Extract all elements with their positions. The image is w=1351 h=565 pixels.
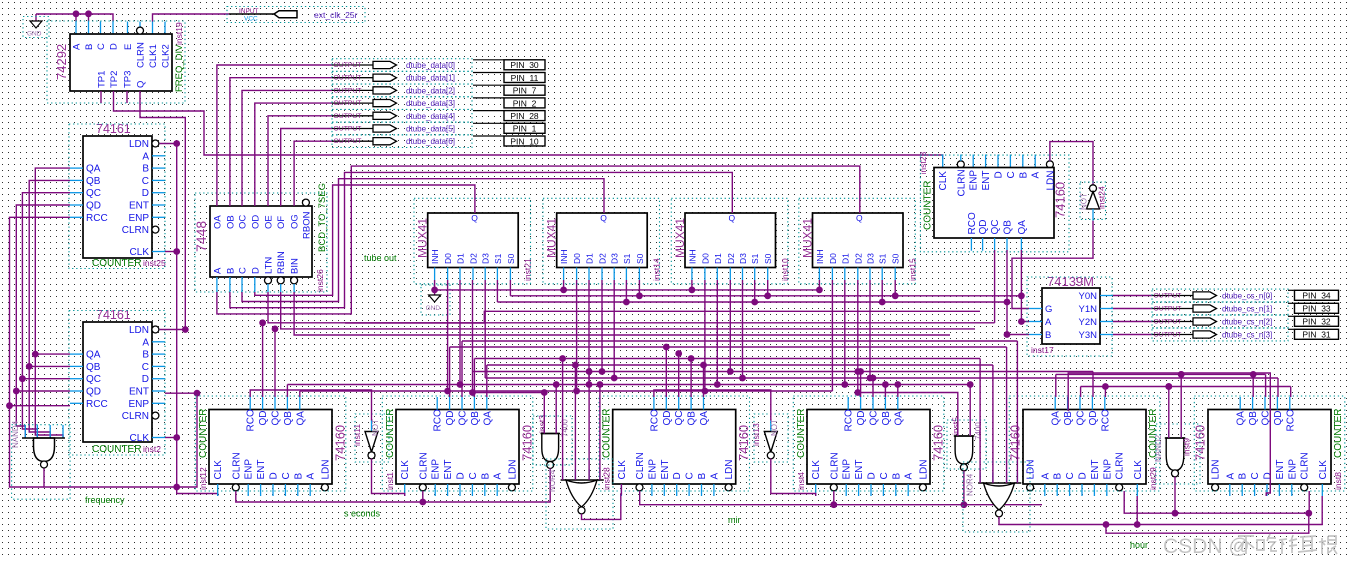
node nor4s1	[559, 355, 566, 362]
svg-text:QC: QC	[271, 411, 282, 426]
counter U 74161 inst2	[69, 308, 165, 455]
wire OF to dtube_data5	[281, 129, 332, 207]
svg-text:ENP: ENP	[647, 459, 658, 480]
svg-text:QA: QA	[86, 350, 101, 361]
wire QB2 left	[29, 365, 70, 367]
gate NOR4 seconds	[546, 459, 613, 529]
svg-text:INPUT: INPUT	[239, 8, 259, 15]
svg-text:CLRN: CLRN	[231, 452, 242, 479]
svg-text:QD: QD	[978, 220, 989, 235]
svg-text:PIN 10: PIN 10	[510, 136, 539, 146]
wire S1 bus	[497, 301, 1007, 303]
svg-text:LDN: LDN	[1026, 459, 1037, 479]
svg-text:inst28: inst28	[602, 467, 612, 490]
svg-text:RBIN: RBIN	[276, 251, 287, 274]
node INH junction	[689, 287, 696, 294]
svg-text:S1: S1	[750, 253, 760, 264]
svg-text:LDN: LDN	[918, 459, 929, 479]
svg-text:OA: OA	[212, 215, 223, 229]
svg-text:NAND2: NAND2	[1154, 434, 1163, 462]
svg-text:dtube_cs_n[0]: dtube_cs_n[0]	[1222, 292, 1272, 301]
svg-text:A: A	[493, 473, 504, 480]
svg-text:inst19: inst19	[174, 22, 184, 45]
svg-text:NOR4: NOR4	[548, 469, 557, 492]
wire S0 drop	[894, 280, 896, 296]
wire CLK2 74161#2	[165, 437, 177, 439]
svg-text:D2: D2	[469, 253, 479, 264]
output pin dtube_data[5] PIN 1	[332, 122, 545, 135]
svg-text:QC: QC	[1076, 411, 1087, 426]
freq divider U 74292 inst19	[47, 21, 185, 103]
wire QC1/QC2 to NAND4 in2	[22, 193, 70, 438]
wire NOR4s in1 up	[562, 359, 564, 481]
output pin dtube_data[3] PIN 2	[332, 97, 545, 110]
wire GND to 74292 A,B,D	[36, 14, 113, 22]
svg-text:D0: D0	[828, 253, 838, 264]
svg-text:FREQ_DIV: FREQ_DIV	[174, 44, 185, 92]
wire QA1/QA2 to NAND4 in4	[35, 168, 70, 438]
output pin dtube_cs_n[3] PIN 31	[1113, 328, 1339, 341]
svg-text:OUTPUT: OUTPUT	[334, 62, 362, 69]
svg-text:QD: QD	[662, 411, 673, 426]
svg-text:LTN: LTN	[264, 257, 275, 274]
wire OB to dtube_data1	[230, 78, 332, 206]
wire OG to dtube_data6	[294, 141, 332, 206]
svg-text:S0: S0	[506, 253, 516, 264]
svg-text:RCC: RCC	[86, 399, 108, 410]
node QA23 junction	[1018, 318, 1025, 325]
svg-text:C: C	[238, 267, 249, 274]
svg-text:inst3: inst3	[537, 415, 547, 433]
node S1 junction	[623, 299, 630, 306]
svg-text:A: A	[709, 473, 720, 480]
svg-text:Q: Q	[856, 213, 863, 223]
wire INH stub down	[563, 280, 565, 290]
svg-text:74161: 74161	[96, 308, 131, 322]
counter U 74160 inst23 (flipped)	[918, 152, 1069, 252]
svg-text:inst2: inst2	[143, 444, 161, 454]
svg-text:inst15: inst15	[908, 258, 918, 281]
svg-text:inst17: inst17	[1031, 345, 1054, 355]
svg-text:CLK: CLK	[1318, 460, 1329, 480]
svg-text:OUTPUT: OUTPUT	[334, 113, 362, 120]
svg-text:CLRN: CLRN	[1300, 452, 1311, 479]
wire NOR4h in1 up	[979, 359, 981, 484]
wire mux3 Q to 7448 B	[230, 172, 732, 307]
svg-text:inst23: inst23	[918, 152, 928, 175]
svg-text:OB: OB	[225, 215, 236, 229]
svg-text:QA: QA	[295, 411, 306, 426]
svg-text:D: D	[142, 188, 149, 199]
node hour clk junction	[1134, 521, 1141, 528]
svg-text:D1: D1	[585, 253, 595, 264]
svg-text:inst29: inst29	[1148, 467, 1158, 490]
svg-text:dtube_data[0]: dtube_data[0]	[406, 61, 455, 70]
svg-text:OUTPUT: OUTPUT	[1154, 293, 1182, 300]
node QA2 junction	[32, 351, 39, 358]
wire mux2 Q to 7448 C	[242, 179, 604, 302]
wire NOT13 out to counter4 CLK	[771, 459, 816, 496]
node INH junction	[431, 287, 438, 294]
wire to counter6 CLK	[1137, 496, 1322, 525]
watermark CSDN	[1163, 534, 1337, 558]
svg-text:MUX41: MUX41	[416, 218, 430, 258]
svg-text:INH: INH	[687, 249, 697, 264]
svg-text:COUNTER: COUNTER	[92, 444, 141, 455]
wire ext_clk to CLK1	[153, 14, 230, 22]
svg-text:VCC: VCC	[244, 16, 258, 23]
wire QA2 left	[35, 353, 70, 355]
svg-text:B: B	[891, 473, 902, 480]
svg-text:CLK: CLK	[130, 247, 150, 258]
node S1 junction	[751, 299, 758, 306]
svg-text:CLK: CLK	[811, 460, 822, 480]
wire counter2 CLRN drop	[422, 491, 424, 502]
wire INH stub down	[691, 280, 693, 290]
svg-text:CLRN: CLRN	[418, 452, 429, 479]
svg-text:PIN 2: PIN 2	[513, 98, 537, 108]
output pin dtube_cs_n[1] PIN 33	[1113, 302, 1339, 315]
svg-text:RCO: RCO	[1285, 409, 1296, 431]
svg-text:S0: S0	[763, 253, 773, 264]
gate NAND2 inst9	[1154, 424, 1200, 484]
svg-text:S0: S0	[891, 253, 901, 264]
counter U 74160 inst28	[599, 396, 751, 496]
svg-text:INH: INH	[559, 249, 569, 264]
svg-text:QD: QD	[1273, 411, 1284, 426]
svg-text:D0: D0	[572, 253, 582, 264]
svg-text:RCO: RCO	[1100, 409, 1111, 431]
svg-text:B: B	[225, 268, 236, 274]
wire S1 drop	[881, 280, 883, 302]
wire to pin A	[75, 14, 77, 22]
wire QD2 left	[16, 390, 70, 392]
wire NAND4 output to 74161 clocks	[44, 144, 177, 488]
output pin dtube_data[4] PIN 28	[332, 110, 545, 123]
svg-text:QA: QA	[893, 411, 904, 426]
wire NAND5 in1 up	[858, 372, 958, 437]
wire counter3 QA up	[703, 365, 705, 397]
svg-text:BIN: BIN	[290, 258, 301, 274]
svg-text:PIN 31: PIN 31	[1302, 330, 1331, 340]
svg-text:S1: S1	[878, 253, 888, 264]
svg-text:QC: QC	[869, 411, 880, 426]
node QD2 junction	[13, 388, 20, 395]
svg-text:inst25: inst25	[143, 258, 166, 268]
wire NOR4s in4 up	[599, 385, 601, 481]
output pin dtube_cs_n[0] PIN 34	[1113, 289, 1339, 302]
wire S1 drop	[496, 280, 498, 302]
svg-text:ENT: ENT	[981, 171, 992, 191]
node QB2 junction	[26, 363, 33, 370]
svg-text:ENP: ENP	[1102, 459, 1113, 480]
svg-text:dtube_cs_n[2]: dtube_cs_n[2]	[1222, 318, 1272, 327]
svg-text:CLK: CLK	[400, 460, 411, 480]
wire counter4 QC up	[872, 378, 874, 397]
svg-text:A: A	[1040, 473, 1051, 480]
wire counter4 CLRN drop	[833, 491, 835, 505]
svg-text:TP3: TP3	[123, 71, 134, 88]
wire bus L10	[300, 390, 833, 392]
svg-text:inst21: inst21	[523, 258, 533, 281]
wire ENT2 tie	[165, 393, 197, 487]
wire bus hour3	[1068, 373, 1270, 496]
svg-text:B: B	[142, 350, 149, 361]
svg-text:inst11: inst11	[352, 424, 362, 446]
svg-text:OUTPUT: OUTPUT	[334, 100, 362, 107]
svg-text:LDN: LDN	[507, 459, 518, 479]
svg-text:B: B	[1045, 330, 1051, 341]
mux U MUX41 inst14	[543, 198, 662, 283]
output pin dtube_data[0] PIN 30	[332, 59, 545, 72]
svg-text:RCO: RCO	[649, 409, 660, 431]
node nand5b	[967, 381, 974, 388]
svg-text:74292: 74292	[54, 44, 69, 80]
gate NOR4 hours	[963, 462, 1030, 532]
svg-text:A: A	[142, 337, 149, 348]
svg-text:QA: QA	[482, 411, 493, 426]
svg-text:ENT: ENT	[256, 460, 267, 480]
wire mux4 Q to 7448 A	[217, 166, 860, 314]
svg-text:74161: 74161	[96, 122, 131, 136]
wire NAND3 in2 up	[555, 385, 557, 434]
svg-text:CLRN: CLRN	[956, 169, 967, 196]
wire bus L5	[474, 358, 980, 360]
mux U MUX41 inst15	[799, 198, 918, 283]
output pin dtube_data[1] PIN 11	[332, 71, 545, 84]
svg-text:MUX41: MUX41	[673, 218, 687, 258]
svg-text:ENT: ENT	[660, 460, 671, 480]
svg-text:inst1: inst1	[385, 472, 395, 490]
svg-text:inst14: inst14	[652, 258, 662, 281]
svg-text:Q: Q	[600, 213, 607, 223]
node j2	[173, 434, 180, 441]
svg-text:S0: S0	[635, 253, 645, 264]
wire CLK1 74161#1	[165, 251, 177, 253]
wire NAND3 in1 up	[473, 372, 545, 434]
node NAND5 out junction	[961, 501, 968, 508]
svg-text:PIN 11: PIN 11	[511, 73, 539, 83]
wire RCC2 left	[10, 405, 71, 407]
svg-text:ENP: ENP	[244, 459, 255, 480]
node j1	[173, 248, 180, 255]
wire 7448 RBIN down to bus	[281, 292, 975, 329]
svg-text:A: A	[1031, 172, 1042, 179]
gate NAND4	[11, 420, 70, 499]
wire LDN2 bubble	[160, 329, 186, 331]
svg-text:LDN: LDN	[129, 325, 149, 336]
wire counter4 QD up	[860, 372, 862, 398]
wire bus L8	[485, 377, 1278, 379]
node S1 QB junction	[1004, 299, 1011, 306]
wire Q to 74161#2 LDN	[140, 91, 185, 330]
svg-text:NOT: NOT	[1080, 193, 1089, 210]
wire QB23 to 74139 B	[1007, 250, 1029, 335]
svg-text:B: B	[293, 473, 304, 480]
svg-text:NOT: NOT	[770, 419, 779, 436]
wire counter1 QD up	[262, 323, 264, 397]
svg-text:TP2: TP2	[109, 71, 120, 88]
wire counter3 QB up	[690, 359, 692, 398]
svg-text:ENT: ENT	[1090, 460, 1101, 480]
svg-text:GND: GND	[426, 305, 441, 312]
svg-text:dtube_cs_n[1]: dtube_cs_n[1]	[1222, 305, 1272, 314]
wire jog bus	[345, 311, 980, 323]
svg-text:OUTPUT: OUTPUT	[334, 87, 362, 94]
svg-text:ENT: ENT	[443, 460, 454, 480]
svg-text:CLK2: CLK2	[160, 44, 171, 68]
wire 7448 BIN down to bus	[294, 292, 950, 335]
node nand3b	[553, 381, 560, 388]
node j4	[173, 484, 180, 491]
svg-text:Y2N: Y2N	[1079, 317, 1098, 328]
svg-text:D: D	[994, 171, 1005, 178]
svg-text:D3: D3	[481, 253, 491, 264]
wire S0 drop	[767, 280, 769, 296]
wire QC2 left	[22, 378, 70, 380]
node CLRN junction min	[830, 501, 837, 508]
wire TP3 stub	[126, 91, 128, 103]
node hour clrn junction	[1172, 510, 1179, 517]
svg-text:D2: D2	[853, 253, 863, 264]
svg-text:RCO: RCO	[844, 409, 855, 431]
decoder U 7448 inst26	[193, 183, 328, 292]
svg-text:D3: D3	[610, 253, 620, 264]
svg-text:LDN: LDN	[320, 459, 331, 479]
svg-text:CLRN: CLRN	[122, 225, 149, 236]
svg-text:RCO: RCO	[246, 409, 257, 431]
svg-text:QA: QA	[1017, 220, 1028, 235]
wire counter6 QB up	[1252, 374, 1254, 397]
svg-text:INH: INH	[815, 249, 825, 264]
svg-text:A: A	[1045, 317, 1052, 328]
svg-text:ENT: ENT	[129, 201, 149, 212]
wire NOR4h in4 up	[1016, 341, 1018, 483]
svg-text:QA: QA	[1051, 411, 1062, 426]
svg-text:C: C	[281, 472, 292, 479]
svg-text:NOT: NOT	[371, 419, 380, 436]
wire QC23 down to bus	[994, 250, 996, 323]
svg-text:Y0N: Y0N	[1079, 291, 1098, 302]
wire RCC1/RCC2 down	[10, 217, 71, 487]
svg-text:C: C	[879, 472, 890, 479]
svg-text:QB: QB	[1063, 411, 1074, 426]
svg-text:D: D	[269, 472, 280, 479]
wire NAND9 out to hour CLRNs	[1124, 477, 1175, 513]
svg-text:LDN: LDN	[724, 459, 735, 479]
svg-text:QB: QB	[86, 176, 101, 187]
wire TP1 stub	[100, 91, 102, 103]
svg-text:QD: QD	[86, 201, 101, 212]
svg-text:ENT: ENT	[129, 387, 149, 398]
wire to pin B	[88, 14, 90, 22]
wire bus L3	[450, 346, 1007, 348]
svg-text:dtube_cs_n[3]: dtube_cs_n[3]	[1222, 331, 1272, 340]
svg-text:CLK: CLK	[213, 460, 224, 480]
svg-text:QD: QD	[86, 387, 101, 398]
svg-text:B: B	[84, 44, 95, 50]
wire NAND5 out to minutes CLRN	[640, 471, 964, 505]
wire S0 bus	[510, 295, 1021, 297]
wire 7448 LTN down to bus	[268, 292, 995, 323]
node nand9a	[1165, 383, 1172, 390]
svg-text:ENP: ENP	[128, 399, 149, 410]
wire NOR4h in3 up	[1006, 347, 1008, 483]
wire INH stub down	[818, 280, 820, 290]
node j3	[182, 326, 189, 333]
output pin dtube_data[2] PIN 7	[332, 84, 545, 97]
svg-text:QB: QB	[283, 411, 294, 426]
svg-text:QB: QB	[1003, 220, 1014, 235]
wire RCO1 to NOT11	[250, 390, 371, 421]
wire LDN23 to NOT24 output	[1050, 142, 1093, 185]
gate NAND2 7400 inst5	[947, 417, 986, 471]
svg-text:D: D	[142, 374, 149, 385]
wire hour bottom link	[1106, 513, 1309, 533]
svg-text:OG: OG	[290, 214, 301, 229]
svg-text:inst12: inst12	[198, 467, 208, 490]
node hour link junction	[1103, 521, 1110, 528]
svg-text:inst8: inst8	[1333, 472, 1343, 490]
wire QA23 to 74139 A	[1021, 250, 1029, 322]
svg-text:mir: mir	[728, 515, 741, 525]
node j6	[194, 390, 201, 397]
svg-text:ENP: ENP	[842, 459, 853, 480]
svg-text:PIN 32: PIN 32	[1302, 317, 1331, 327]
svg-text:G: G	[1045, 304, 1052, 315]
svg-text:7400: 7400	[561, 419, 570, 437]
ground GND2	[421, 285, 450, 315]
svg-text:ENP: ENP	[128, 213, 149, 224]
node nor4s3	[586, 368, 593, 375]
svg-text:S1: S1	[622, 253, 632, 264]
svg-text:C: C	[96, 43, 107, 50]
svg-text:QC: QC	[458, 411, 469, 426]
node INH junction	[560, 287, 567, 294]
svg-text:C: C	[685, 472, 696, 479]
svg-text:OE: OE	[264, 215, 275, 229]
svg-text:dtube_data[1]: dtube_data[1]	[406, 74, 455, 83]
svg-text:CLK: CLK	[1133, 460, 1144, 480]
node nand9b	[1178, 371, 1185, 378]
svg-text:COUNTER: COUNTER	[92, 258, 141, 269]
svg-text:Q: Q	[136, 81, 147, 88]
wire NAND3 out to seconds CLRN	[236, 468, 550, 502]
node nor4s4	[597, 381, 604, 388]
svg-text:Y1N: Y1N	[1079, 304, 1098, 315]
svg-text:INH: INH	[430, 249, 440, 264]
svg-text:D2: D2	[598, 253, 608, 264]
svg-text:QD: QD	[856, 411, 867, 426]
svg-text:dtube_data[5]: dtube_data[5]	[406, 125, 455, 134]
wire OA to dtube_data0	[217, 65, 332, 206]
svg-text:C: C	[1006, 171, 1017, 178]
svg-text:D0: D0	[443, 253, 453, 264]
svg-text:D1: D1	[713, 253, 723, 264]
svg-text:ext_clk_25r: ext_clk_25r	[314, 10, 358, 20]
wire NAND5 in2 up	[969, 385, 971, 437]
svg-text:QC: QC	[86, 374, 101, 385]
svg-text:C: C	[468, 472, 479, 479]
wire mux1 Q to 7448 D	[255, 185, 475, 295]
svg-text:NOR4: NOR4	[966, 473, 975, 496]
svg-text:QB: QB	[687, 411, 698, 426]
svg-text:ENP: ENP	[431, 459, 442, 480]
svg-text:A: A	[1225, 473, 1236, 480]
input pin ext_clk_25r	[227, 7, 365, 23]
svg-text:D: D	[867, 472, 878, 479]
node junction B	[85, 10, 92, 17]
